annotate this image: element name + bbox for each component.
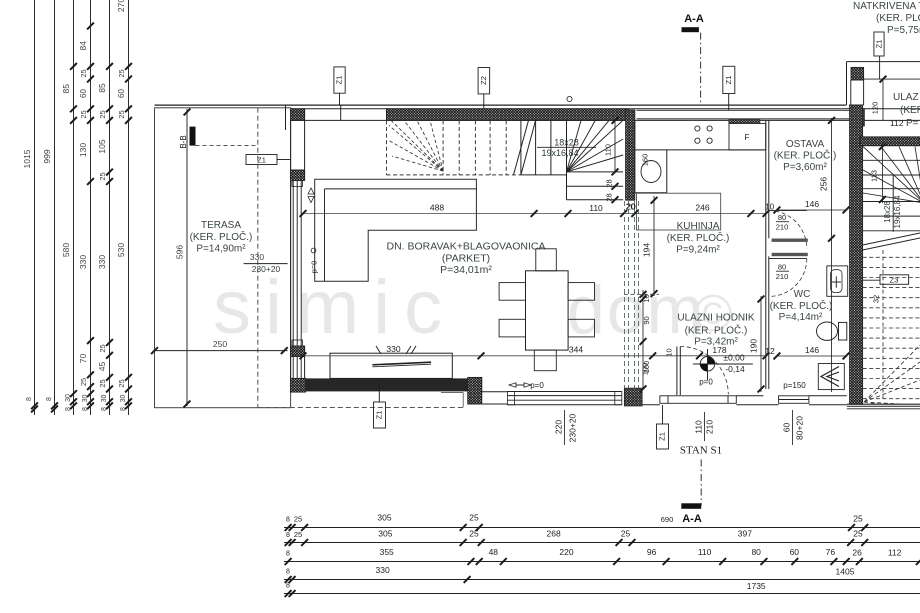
svg-text:194: 194: [642, 243, 652, 257]
svg-text:P=5,75m: P=5,75m: [887, 25, 920, 36]
svg-text:25: 25: [853, 529, 863, 539]
kitchen island: [637, 193, 721, 230]
svg-text:30: 30: [82, 395, 89, 403]
window label Z2 top b: [478, 68, 490, 94]
sofa L-shaped: [315, 179, 477, 281]
kitchen counter left column: [634, 150, 636, 193]
window label Z1 bottom a: [374, 402, 386, 428]
dimension chain bottom line 2: [284, 542, 920, 544]
right stair bottom fan dashed: [864, 345, 920, 402]
svg-text:305: 305: [377, 513, 391, 523]
window label Z1 top c: [723, 66, 735, 93]
svg-text:120: 120: [871, 102, 880, 115]
svg-text:DN. BORAVAK+BLAGOVAONICA: DN. BORAVAK+BLAGOVAONICA: [386, 241, 545, 253]
bottom wall living room (solid): [306, 378, 468, 391]
chair top: [536, 249, 557, 271]
svg-text:80: 80: [751, 547, 761, 557]
svg-text:8: 8: [286, 583, 290, 590]
roof overhang dashed line over terrace: [257, 108, 259, 408]
svg-text:246: 246: [695, 203, 709, 213]
svg-text:999: 999: [42, 149, 52, 163]
svg-text:596: 596: [175, 245, 185, 259]
svg-text:8: 8: [286, 532, 290, 539]
svg-text:110: 110: [589, 203, 603, 213]
svg-text:p=0: p=0: [310, 261, 319, 274]
svg-text:10: 10: [642, 294, 651, 302]
svg-text:30: 30: [120, 395, 127, 403]
svg-text:KUHINJA: KUHINJA: [677, 221, 720, 232]
dim 110 winder: [614, 120, 616, 171]
window label Z3: [880, 275, 909, 285]
svg-text:96: 96: [647, 547, 657, 557]
svg-text:146: 146: [805, 199, 819, 209]
wall hatch pier bottom (living/dining step): [468, 377, 482, 404]
svg-text:210: 210: [705, 420, 715, 434]
window W4 bottom large (p=0 sliding): [507, 391, 621, 393]
svg-text:F: F: [745, 133, 750, 142]
svg-text:8: 8: [286, 517, 290, 524]
svg-text:210: 210: [776, 223, 789, 232]
svg-text:8: 8: [101, 407, 108, 411]
svg-text:488: 488: [430, 203, 444, 213]
svg-text:256: 256: [819, 177, 829, 191]
svg-text:60: 60: [117, 89, 126, 98]
svg-text:8: 8: [82, 407, 89, 411]
kitchen sink: [641, 161, 661, 183]
svg-text:OSTAVA: OSTAVA: [786, 139, 825, 150]
dim 146 ostava: [777, 209, 846, 211]
svg-text:250: 250: [213, 339, 227, 349]
chair bottom: [534, 350, 556, 371]
svg-text:18x28: 18x28: [883, 201, 892, 223]
svg-text:simic: simic: [213, 265, 456, 350]
svg-text:8: 8: [65, 407, 72, 411]
cooktop 4 circles: [695, 126, 700, 131]
entrance door jamb: [676, 347, 678, 396]
svg-text:690: 690: [661, 515, 674, 524]
svg-text:110: 110: [694, 420, 704, 434]
wall hatch top-left corner pier: [291, 109, 305, 121]
dimension chain vertical line 5 (85,25,105,330,45): [109, 0, 111, 415]
dimension chain vertical line 2 (999): [54, 0, 56, 415]
svg-text:84: 84: [78, 41, 88, 51]
window label Z1 bottom b: [657, 424, 669, 449]
svg-text:P=: P=: [906, 118, 919, 129]
svg-text:60: 60: [790, 547, 800, 557]
svg-text:1405: 1405: [836, 567, 855, 577]
svg-text:30: 30: [101, 395, 108, 403]
lintel hatch above fridge: [729, 120, 760, 124]
svg-text:80: 80: [778, 263, 786, 272]
dimension chain vertical line 1 (1015): [34, 0, 36, 415]
svg-text:25: 25: [469, 529, 479, 539]
entrance door swing arc: [680, 347, 728, 395]
right stair riser vertical: [892, 175, 894, 232]
left exterior wall: [290, 120, 292, 392]
svg-text:355: 355: [380, 547, 394, 557]
svg-text:580: 580: [61, 243, 71, 257]
dim 190 hodnik: [760, 296, 762, 392]
svg-text:25: 25: [117, 379, 126, 387]
svg-text:NATKRIVENA TER: NATKRIVENA TER: [853, 1, 920, 12]
top wall band outline: [285, 105, 287, 130]
wall hatch top-right pier: [850, 109, 864, 126]
entrance door opening in right wall: [851, 67, 864, 80]
dimension chain vertical line 3 (85,580): [73, 0, 75, 415]
svg-text:1015: 1015: [22, 149, 32, 168]
chair left 2: [499, 319, 525, 337]
svg-text:25: 25: [117, 69, 126, 77]
shower tray: [818, 364, 844, 390]
svg-text:530: 530: [116, 243, 126, 257]
svg-text:p=150: p=150: [783, 381, 806, 390]
window label Z1 top right: [874, 32, 884, 56]
dining table: [526, 271, 569, 350]
svg-text:ULAZNI HODNIK: ULAZNI HODNIK: [677, 313, 755, 324]
svg-text:26: 26: [852, 548, 862, 558]
svg-text:48: 48: [489, 547, 499, 557]
svg-text:(KER. PLOČ.): (KER. PLOČ.): [190, 230, 253, 243]
roof overhang dashed line bottom: [258, 407, 464, 409]
svg-text:80+20: 80+20: [795, 416, 805, 440]
svg-text:220: 220: [554, 420, 564, 434]
svg-text:TERASA: TERASA: [201, 220, 241, 231]
svg-text:190: 190: [749, 339, 759, 353]
svg-text:105: 105: [97, 139, 107, 153]
svg-text:Z1: Z1: [257, 156, 266, 165]
svg-text:10: 10: [665, 348, 674, 356]
ostava door swing: [769, 211, 807, 249]
svg-text:85: 85: [61, 84, 71, 94]
chair right 2: [568, 319, 594, 337]
interior dimension line 488/110/20/246: [303, 213, 766, 215]
window label Z1 left: [246, 155, 277, 165]
bottom wall sill lines dining section: [482, 391, 508, 393]
dimension 250 terrace: [155, 350, 288, 352]
svg-text:8: 8: [286, 551, 290, 558]
window W3 left small: [292, 357, 294, 379]
svg-text:25: 25: [79, 110, 88, 118]
level marker plus minus 0,00: [693, 363, 753, 365]
svg-text:Z1: Z1: [724, 76, 733, 85]
dimension chain bottom line 3: [284, 561, 920, 563]
window W2 left (330, p=0): [292, 181, 294, 347]
niche arrows left wall: [308, 188, 314, 203]
stair dashed fan lines: [389, 126, 443, 172]
svg-text:210: 210: [776, 272, 789, 281]
bottom wall under stairs: [847, 403, 920, 405]
svg-text:270: 270: [116, 0, 126, 12]
dim 256 ostava: [831, 118, 833, 392]
ULAZ door jambs: [850, 80, 852, 105]
svg-text:ULAZ: ULAZ: [893, 92, 919, 103]
svg-text:12: 12: [765, 346, 775, 356]
svg-text:45: 45: [97, 362, 107, 372]
svg-text:60: 60: [782, 423, 792, 433]
svg-text:P=3,42m²: P=3,42m²: [694, 337, 738, 348]
stair cut line diagonal: [514, 120, 529, 174]
dim 113 right stair: [881, 142, 883, 203]
svg-text:330: 330: [376, 565, 390, 575]
svg-text:113: 113: [870, 170, 879, 182]
svg-text:85: 85: [97, 83, 107, 93]
svg-text:Z3: Z3: [890, 276, 899, 285]
svg-text:110: 110: [604, 144, 613, 156]
entrance door threshold bottom: [642, 404, 660, 406]
svg-text:8: 8: [286, 569, 290, 576]
svg-text:(KER.: (KER.: [900, 105, 920, 116]
dimension chain bottom line 1: [284, 527, 920, 529]
svg-text:25: 25: [853, 514, 863, 524]
wall hatch left pier b: [291, 346, 305, 357]
toilet: [839, 322, 847, 340]
partition wall ostava/wc: [772, 239, 808, 242]
vent symbol circle on facade: [567, 96, 572, 101]
svg-text:Z2: Z2: [479, 76, 488, 85]
svg-text:25: 25: [469, 513, 479, 523]
right stair top hatch: [860, 137, 920, 146]
svg-text:1735: 1735: [747, 581, 766, 591]
kitchen counter top band: [635, 149, 766, 151]
svg-text:305: 305: [378, 529, 392, 539]
svg-text:160: 160: [641, 154, 650, 167]
dim line 120 ulaz: [882, 79, 884, 120]
right stair cut line: [863, 233, 920, 245]
window label Z1 top a: [334, 67, 345, 93]
svg-text:25: 25: [621, 529, 631, 539]
svg-text:Z1: Z1: [335, 76, 344, 85]
svg-text:STAN S1: STAN S1: [680, 445, 722, 457]
chair left 1: [499, 283, 525, 301]
washbasin: [827, 266, 848, 296]
dim chain 10/90/100 hodnik-kitchen: [642, 290, 644, 390]
svg-text:330: 330: [78, 255, 88, 269]
svg-text:(KER. PLOČ.): (KER. PLOČ.): [685, 324, 748, 337]
dim 194 kitchen: [653, 196, 655, 296]
svg-text:±0,00: ±0,00: [723, 353, 744, 363]
p=0 marker bottom window: [509, 383, 531, 387]
svg-text:P=4,14m²: P=4,14m²: [779, 312, 823, 323]
svg-text:70: 70: [78, 354, 88, 364]
window W5 wc (p=150): [779, 396, 809, 404]
svg-text:28: 28: [605, 179, 614, 187]
svg-text:330: 330: [97, 255, 107, 269]
right stair winder fan: [863, 147, 920, 203]
svg-text:Z1: Z1: [375, 411, 384, 420]
covered porch outline (NATKRIVENA TERASA): [847, 61, 920, 63]
svg-text:25: 25: [294, 530, 302, 539]
svg-text:P=3,60m²: P=3,60m²: [783, 162, 827, 173]
outer top facade line: [155, 104, 846, 106]
svg-text:112: 112: [888, 548, 902, 558]
wall hatch kitchen divider top: [626, 110, 635, 200]
svg-text:8: 8: [46, 397, 53, 401]
svg-text:-0,14: -0,14: [725, 364, 745, 374]
svg-text:(PARKET): (PARKET): [442, 253, 490, 265]
bottom wall right section: [736, 404, 778, 406]
wc door swing: [769, 259, 807, 297]
porch threshold line: [864, 78, 920, 80]
svg-text:60: 60: [79, 89, 88, 98]
svg-text:100: 100: [641, 363, 650, 376]
svg-text:397: 397: [738, 529, 752, 539]
section marker A-A bottom: [700, 460, 702, 506]
svg-text:(KER. PLOČ.): (KER. PLOČ.): [774, 149, 837, 162]
right stair dashed center line: [882, 250, 884, 399]
tv panel: [372, 362, 431, 365]
svg-text:344: 344: [569, 344, 583, 354]
svg-text:25: 25: [98, 110, 107, 118]
svg-text:25: 25: [98, 379, 107, 387]
svg-text:330: 330: [250, 252, 264, 262]
svg-text:p=0: p=0: [530, 381, 544, 390]
svg-text:130: 130: [78, 143, 88, 157]
stair winder box: [566, 120, 568, 199]
svg-text:19x16,84: 19x16,84: [893, 195, 902, 228]
interior dimension line 344/178: [303, 355, 766, 357]
stair winder fan: [567, 120, 582, 171]
wall hatch left bottom corner pier: [291, 378, 306, 392]
svg-text:146: 146: [805, 345, 819, 355]
svg-text:A-A: A-A: [682, 513, 702, 525]
dimension chain bottom line 4: [284, 579, 920, 581]
svg-text:Z1: Z1: [658, 432, 667, 441]
wall hatch top long (above stairs): [387, 109, 629, 121]
wall hatch left pier a: [291, 170, 305, 181]
svg-text:25: 25: [98, 344, 107, 352]
section marker B-B: [190, 127, 196, 146]
svg-text:(KER. PLOČ: (KER. PLOČ: [876, 11, 920, 24]
svg-text:230+20: 230+20: [252, 264, 281, 274]
dimension chain bottom line 5: [284, 593, 920, 595]
stair dashed flight (under slab): [386, 120, 388, 174]
tv sideboard: [330, 353, 452, 378]
svg-text:76: 76: [826, 547, 836, 557]
fridge F: [729, 123, 766, 149]
dimension chain vertical line 6 (25,60,530): [128, 0, 130, 415]
svg-text:110: 110: [698, 547, 712, 557]
ULAZ door gap: [851, 79, 864, 81]
svg-text:B-B: B-B: [179, 135, 188, 148]
stair solid flight: [520, 120, 522, 174]
svg-text:112: 112: [890, 118, 904, 128]
svg-text:30: 30: [65, 394, 72, 402]
dimension 596 terrace: [186, 109, 188, 406]
svg-text:25: 25: [79, 69, 88, 77]
shower symbol chevrons: [821, 367, 839, 387]
svg-text:P=34,01m²: P=34,01m²: [440, 264, 492, 276]
svg-text:8: 8: [26, 397, 33, 401]
svg-text:A-A: A-A: [684, 13, 704, 25]
svg-text:220: 220: [559, 547, 573, 557]
svg-text:90: 90: [642, 316, 651, 324]
svg-text:p=0: p=0: [699, 378, 713, 387]
svg-text:330: 330: [386, 344, 400, 354]
dimension chain vertical line 4 (84,25,60,25,130,330,70): [90, 0, 92, 415]
svg-text:Z1: Z1: [875, 40, 884, 49]
wall hatch pier bottom 2: [624, 388, 642, 406]
svg-text:25: 25: [79, 378, 88, 386]
svg-text:20: 20: [626, 202, 636, 212]
kitchen window strip top: [637, 109, 851, 111]
svg-text:268: 268: [547, 529, 561, 539]
svg-text:(KER. PLOČ.): (KER. PLOČ.): [667, 231, 730, 244]
terrace outline TERASA: [155, 108, 291, 408]
right stair treads upper: [863, 159, 920, 161]
svg-text:25: 25: [117, 110, 126, 118]
chair right 1: [568, 283, 594, 301]
svg-text:25: 25: [294, 515, 302, 524]
window W1 top-left (terrace window): [304, 109, 306, 121]
svg-text:25: 25: [98, 172, 107, 180]
svg-text:230+20: 230+20: [568, 413, 578, 442]
right stair dashed treads: [863, 256, 920, 258]
svg-text:32: 32: [872, 295, 881, 303]
kitchen right wall: [765, 120, 767, 389]
step lines at wall base: [441, 392, 463, 394]
dim 146 wc: [777, 355, 846, 357]
svg-text:8: 8: [120, 407, 127, 411]
svg-text:(KER. PLOČ.): (KER. PLOČ.): [770, 299, 833, 312]
svg-text:WC: WC: [794, 289, 811, 300]
right main wall hatched: [850, 105, 863, 404]
svg-text:28: 28: [605, 193, 614, 201]
svg-text:P=14,90m²: P=14,90m²: [196, 244, 246, 255]
parapet note p=0 left window: [311, 248, 316, 253]
svg-text:P=9,24m²: P=9,24m²: [676, 245, 720, 256]
kitchen divider dashed (open above): [623, 201, 625, 388]
